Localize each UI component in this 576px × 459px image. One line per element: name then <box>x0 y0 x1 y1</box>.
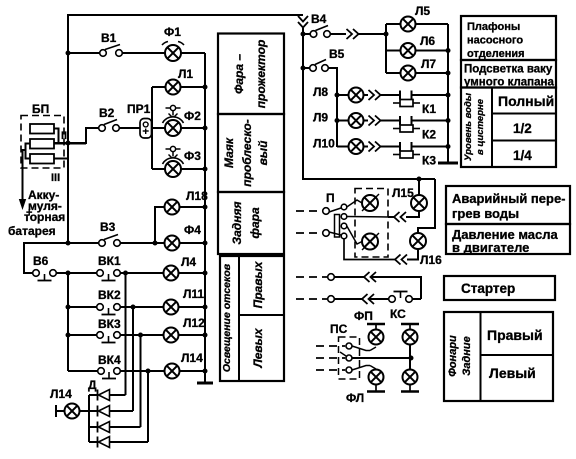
svg-text:Ф3: Ф3 <box>184 149 201 163</box>
svg-text:Левых: Левых <box>251 327 265 368</box>
svg-text:В6: В6 <box>33 254 49 268</box>
svg-text:ВК2: ВК2 <box>98 288 121 302</box>
svg-text:в цистерне: в цистерне <box>475 98 486 155</box>
svg-text:ВК4: ВК4 <box>98 353 121 367</box>
svg-text:Плафоны: Плафоны <box>467 21 520 33</box>
svg-text:В1: В1 <box>101 31 117 45</box>
svg-text:Л7: Л7 <box>421 57 436 71</box>
svg-text:Стартер: Стартер <box>461 281 515 296</box>
svg-text:Подсветка ваку: Подсветка ваку <box>464 64 553 76</box>
svg-text:ПР1: ПР1 <box>127 102 151 116</box>
svg-text:батарея: батарея <box>8 224 56 238</box>
svg-text:прожектор: прожектор <box>254 40 268 109</box>
svg-text:П: П <box>326 191 335 205</box>
svg-text:К2: К2 <box>422 128 436 142</box>
svg-text:Задние: Задние <box>461 336 473 375</box>
svg-text:Освещение отсеков: Освещение отсеков <box>221 263 233 372</box>
svg-text:Л10: Л10 <box>313 137 335 151</box>
svg-text:Правый: Правый <box>487 327 543 343</box>
svg-text:В5: В5 <box>329 47 345 61</box>
svg-text:Л14: Л14 <box>181 351 203 365</box>
svg-text:вый: вый <box>256 140 270 165</box>
svg-text:Уровень воды: Уровень воды <box>463 93 474 161</box>
svg-text:К1: К1 <box>422 102 436 116</box>
svg-text:В2: В2 <box>99 106 115 120</box>
svg-text:ФП: ФП <box>354 309 373 323</box>
svg-text:Л1: Л1 <box>178 67 193 81</box>
svg-text:Л11: Л11 <box>183 287 204 301</box>
svg-text:торная: торная <box>24 210 65 224</box>
svg-text:БП: БП <box>32 102 49 116</box>
svg-text:1/2: 1/2 <box>513 121 532 136</box>
svg-text:Задняя: Задняя <box>230 201 244 244</box>
svg-text:фара: фара <box>248 207 262 239</box>
svg-text:Л4: Л4 <box>181 255 196 269</box>
svg-text:Л6: Л6 <box>420 34 435 48</box>
svg-text:Л9: Л9 <box>313 111 328 125</box>
svg-text:насосного: насосного <box>467 35 523 47</box>
svg-text:Ф2: Ф2 <box>184 109 201 123</box>
svg-text:ВК1: ВК1 <box>98 254 121 268</box>
svg-text:Правых: Правых <box>251 260 265 308</box>
svg-text:III: III <box>51 172 60 184</box>
svg-text:Л8: Л8 <box>313 85 328 99</box>
svg-text:Д: Д <box>88 378 97 392</box>
svg-text:II: II <box>61 130 67 142</box>
svg-text:Л18: Л18 <box>186 189 208 203</box>
svg-text:Ф4: Ф4 <box>184 223 201 237</box>
svg-text:Л14: Л14 <box>50 387 72 401</box>
svg-text:К3: К3 <box>422 154 436 168</box>
svg-text:В3: В3 <box>100 220 116 234</box>
svg-text:Фара –: Фара – <box>232 54 246 94</box>
svg-text:Л16: Л16 <box>420 253 442 267</box>
svg-text:Фонари: Фонари <box>447 335 459 377</box>
svg-text:Л5: Л5 <box>415 4 430 18</box>
svg-text:Полный: Полный <box>498 93 554 109</box>
svg-text:1/4: 1/4 <box>513 148 532 163</box>
svg-text:Л12: Л12 <box>183 316 205 330</box>
svg-text:ВК3: ВК3 <box>98 317 121 331</box>
svg-text:отделения: отделения <box>467 48 525 60</box>
svg-text:КС: КС <box>390 307 406 321</box>
svg-text:Аварийный пере-: Аварийный пере- <box>452 191 566 206</box>
svg-text:ФЛ: ФЛ <box>346 391 364 405</box>
svg-text:ПС: ПС <box>330 322 348 336</box>
svg-text:Левый: Левый <box>489 365 536 381</box>
svg-text:Маяк: Маяк <box>222 137 236 168</box>
svg-text:В4: В4 <box>311 12 327 26</box>
svg-text:в двигателе: в двигателе <box>452 240 529 255</box>
svg-text:Л15: Л15 <box>392 186 414 200</box>
svg-text:Ф1: Ф1 <box>164 25 181 39</box>
svg-text:грев воды: грев воды <box>452 206 519 221</box>
svg-text:проблеско-: проблеско- <box>240 119 254 186</box>
